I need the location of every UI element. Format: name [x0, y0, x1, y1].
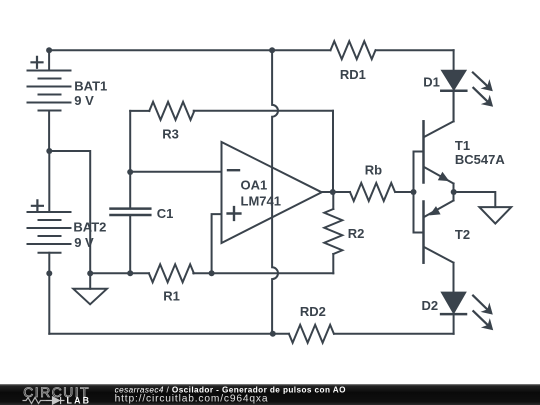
wire Rb right lead: [395, 191, 413, 193]
node bottom rail tap: [270, 331, 276, 337]
svg-text:BAT2: BAT2: [73, 220, 106, 235]
wire top rail left: [49, 49, 330, 51]
node ground left: [87, 270, 93, 276]
capacitor C1: [111, 209, 151, 215]
node inverting input: [127, 169, 133, 175]
node emitter: [451, 189, 457, 195]
wire mid rail jog: [49, 151, 90, 273]
LED D2 light arrows: [473, 296, 493, 331]
op-amp plus sign: [228, 207, 241, 220]
node BAT2 bottom: [46, 270, 52, 276]
logo diode: [46, 397, 65, 404]
wire feedback vertical: [332, 111, 334, 192]
battery BAT1: [28, 71, 71, 111]
resistor Rb: [350, 183, 395, 201]
svg-text:T1: T1: [455, 138, 470, 153]
ground right: [479, 207, 511, 224]
transistor T2: [424, 192, 454, 293]
node BAT1-BAT2: [46, 148, 52, 154]
ground left: [73, 289, 107, 305]
battery BAT2: [28, 212, 71, 253]
wire bottom rail right: [335, 333, 454, 335]
resistor RD1: [331, 41, 376, 59]
op-amp minus sign: [228, 169, 239, 171]
wire noninverting input stub: [212, 214, 222, 273]
LED D1 light arrows: [473, 73, 493, 107]
wire T2 base lead: [414, 232, 424, 234]
node top rail tap: [269, 47, 275, 53]
transistor T1: [424, 92, 454, 192]
logo resistor zigzag: [23, 398, 47, 404]
wire base bus: [413, 152, 415, 233]
svg-text:T2: T2: [455, 227, 470, 242]
svg-text:LM741: LM741: [241, 193, 281, 208]
svg-text:9 V: 9 V: [74, 235, 94, 250]
wire D1 anode drop: [453, 50, 455, 71]
svg-text:Rb: Rb: [365, 162, 382, 177]
svg-text:BC547A: BC547A: [455, 152, 505, 167]
svg-text:C1: C1: [157, 206, 174, 221]
wire BAT2 bottom lead: [48, 253, 50, 334]
wire emitter node to ground: [454, 192, 496, 207]
op-amp OA1 triangle: [222, 142, 322, 243]
op-amp output wire: [322, 191, 333, 193]
wire Rb left lead: [333, 191, 350, 193]
wire ground stub left: [89, 273, 91, 288]
wire BAT2 top lead: [48, 151, 50, 212]
wire BAT1 top lead: [48, 50, 50, 70]
node op-amp output: [330, 189, 336, 195]
wire lower mid right: [193, 272, 333, 274]
node BAT1 top: [46, 47, 52, 53]
svg-text:LAB: LAB: [67, 395, 92, 405]
svg-text:http://circuitlab.com/c964qxa: http://circuitlab.com/c964qxa: [115, 394, 269, 405]
svg-text:R2: R2: [348, 226, 365, 241]
LED D1: [441, 71, 466, 122]
resistor RD2: [289, 325, 334, 343]
LED D2: [441, 293, 466, 315]
BAT2 plus sign: [32, 200, 43, 211]
wire lower mid left: [90, 272, 149, 274]
svg-text:BAT1: BAT1: [74, 78, 107, 93]
resistor R2: [324, 209, 342, 254]
wire bottom rail left: [49, 333, 289, 335]
svg-text:R1: R1: [163, 289, 180, 304]
svg-text:D1: D1: [423, 75, 440, 90]
node R1-plus input: [209, 270, 215, 276]
wire R2 bottom lead: [332, 254, 334, 273]
svg-text:9 V: 9 V: [74, 93, 94, 108]
wire C1 bottom vertical: [129, 216, 131, 273]
transistor T2 emitter arrow: [429, 206, 440, 215]
svg-text:R3: R3: [162, 127, 179, 142]
wire crossing vertical with hops: [272, 50, 278, 334]
svg-text:RD1: RD1: [340, 67, 366, 82]
wire T1 base lead: [414, 151, 424, 153]
wire R2 top lead: [332, 192, 334, 209]
wire feedback top: [194, 110, 333, 112]
svg-text:RD2: RD2: [300, 304, 326, 319]
transistor T1 emitter arrow: [438, 172, 450, 181]
resistor R3: [149, 102, 194, 120]
node base: [411, 189, 417, 195]
BAT1 plus sign: [32, 57, 43, 68]
node C1-R1: [127, 270, 133, 276]
wire R3 left lead: [130, 110, 149, 112]
wire D2 cathode drop: [453, 315, 455, 334]
wire top rail right: [376, 49, 454, 51]
svg-text:D2: D2: [422, 298, 439, 313]
svg-text:OA1: OA1: [241, 177, 268, 192]
wire inverting input: [130, 171, 221, 173]
wire C1 top vertical: [129, 111, 131, 207]
resistor R1: [149, 264, 194, 282]
wire BAT1 bottom lead: [48, 111, 50, 152]
